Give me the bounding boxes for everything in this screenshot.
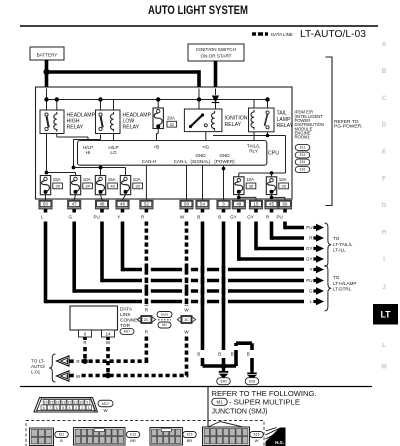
svg-text:ROOM):: ROOM): [295,135,311,140]
pin 47 of IPDM connector, wire color G [68,200,81,209]
svg-text:DATA LINE: DATA LINE [271,32,293,37]
wire high relay coil feed stub [56,100,58,111]
wire tail relay contact to right fuses [267,132,269,136]
wire ignition relay contact feed [198,89,200,110]
svg-text:9: 9 [86,401,88,405]
H.S. hatch symbol [266,428,286,446]
svg-text:PU: PU [94,215,100,220]
svg-text:14: 14 [56,401,60,405]
node bus tap fuse 52 [156,97,160,101]
brace TO LT-AUTO [49,354,55,382]
svg-text:E13: E13 [130,433,136,437]
svg-text:- SUPER MULTIPLE: - SUPER MULTIPLE [229,397,300,406]
off-page connector triangle A [57,356,70,366]
svg-text:W: W [180,215,185,220]
wire battery column inside box [46,89,48,111]
svg-text:54: 54 [200,202,205,207]
svg-text:5: 5 [62,406,64,410]
wire W CAN data line pin 58 down [185,209,189,213]
svg-text:GY: GY [306,246,313,251]
svg-text:JUNCTION (SMJ): JUNCTION (SMJ) [212,406,268,415]
bracket for IPDM refer note [326,57,333,206]
svg-text:PG-POWER.: PG-POWER. [334,124,363,130]
svg-text:B: B [382,68,387,75]
svg-text:B: B [218,215,221,220]
pin 46 of IPDM connector, wire color Y [116,200,129,209]
svg-text:16: 16 [44,401,48,405]
svg-text:M17: M17 [102,402,109,406]
dashed group box for IPDM connectors [26,421,264,446]
svg-text:52: 52 [170,122,175,127]
svg-text:M17: M17 [124,330,131,334]
svg-text:H.S.: H.S. [275,440,284,445]
wire fuse 35 T-split to pins 45 and 56 [271,195,273,198]
svg-text:7: 7 [49,406,51,410]
svg-text:(POWER): (POWER) [214,159,235,164]
wire fuse 36 T-split to pins 49 and 15 [238,195,240,198]
svg-text:E: E [382,149,387,156]
ground symbol E26 [250,370,253,373]
node tail feed junction [266,134,270,138]
svg-text:B: B [60,438,63,443]
svg-text:TO: TO [333,236,340,241]
svg-text:13: 13 [62,401,66,405]
node W data line DLC tap [105,373,111,379]
svg-text:+IG: +IG [202,144,210,149]
node low fuse bus tap [72,166,76,170]
ground symbol E40 [222,366,225,371]
svg-text:CPU: CPU [268,151,279,157]
node battery junction [43,69,49,75]
wire fuse 40 feed stub [100,168,102,176]
wire high relay coil to CPU H/LP HI [56,134,58,138]
pin 48 of IPDM connector, wire color PU [95,200,108,209]
connector ref M17 [120,329,134,335]
connector face E13 [74,428,126,446]
svg-text:15A: 15A [53,177,61,182]
svg-text:4: 4 [69,406,71,410]
svg-text:J: J [382,284,386,291]
wire GND SIGNAL to pin 54 [202,165,204,200]
svg-text:E16: E16 [300,168,306,172]
pin 3 of IPDM connector, wire color B [217,200,230,209]
svg-text:CAN-H: CAN-H [142,159,157,164]
wire tail relay coil to CPU TAIL/L RLY [253,132,255,141]
svg-text:G: G [68,215,72,220]
svg-text:,: , [310,161,311,166]
brace TO LT-TAIL/L LT-ILL [325,223,332,266]
svg-text:C: C [382,95,387,102]
diode D1 ignition relay [212,96,219,103]
node bus tap high relay contact [44,97,48,101]
svg-text:RELAY: RELAY [277,123,294,129]
svg-text:Y: Y [117,215,120,220]
svg-text:TAIL/L: TAIL/L [247,143,261,148]
svg-text:LT-TAIL/L: LT-TAIL/L [333,242,353,247]
wire IPDM internal battery bus [47,99,268,101]
wire high relay contact to fuse bus [46,134,48,173]
svg-text:AUTO LIGHT SYSTEM: AUTO LIGHT SYSTEM [148,4,248,17]
svg-text:W: W [104,408,108,413]
svg-text:HI: HI [86,150,91,155]
wire battery feed drop at x199 [197,70,201,88]
wire GY pin15 to arrow [254,209,258,213]
wire R data line horizontal to LT-AUTO/L-01 [82,359,149,363]
svg-text:49: 49 [236,202,241,207]
node high fuse bus tap [45,171,49,175]
svg-text:IGNITION: IGNITION [225,116,248,122]
svg-text:35: 35 [281,184,286,189]
wire R pin45 to arrow [270,209,274,213]
svg-text:48: 48 [100,202,105,207]
svg-text:L: L [382,342,386,349]
svg-text:,: , [310,154,311,159]
svg-text:45: 45 [269,202,274,207]
svg-text:15A: 15A [108,177,116,182]
svg-text:15: 15 [254,202,259,207]
pin 49 of IPDM connector, wire color GY [232,200,245,209]
svg-text:10A: 10A [83,177,91,182]
wire GY pin49 to arrow [237,209,241,213]
svg-text:RELAY: RELAY [123,125,140,131]
wire fuse 39 to pin 50 [45,195,47,200]
svg-text:F: F [382,176,386,183]
wire ground bridge to E26 [234,350,238,366]
wire PU pin48 to arrow [100,209,104,213]
wire W data line horizontal to LT-AUTO/L-01 [82,374,189,378]
wire ignition switch feed inside box [215,89,217,96]
svg-text:BR: BR [130,438,136,443]
svg-text:RELAY: RELAY [225,122,242,128]
svg-text:52: 52 [144,202,149,207]
svg-text:BR: BR [187,438,193,443]
svg-text:E11: E11 [59,433,65,437]
svg-text:PU: PU [306,225,312,230]
svg-text:E26: E26 [249,379,255,383]
relay ignition relay [184,109,222,132]
wire DLC pin14 W drop [106,337,110,340]
wire fuse 36 feed stub [238,173,240,177]
svg-text:GY: GY [230,215,237,220]
fuse F52 20A [153,108,163,129]
svg-text:6: 6 [56,406,58,410]
svg-text:IGNITION SWITCH: IGNITION SWITCH [196,47,236,52]
wire low relay contact to low fuse bus [100,135,102,140]
data line legend [252,32,268,35]
connector face E11 [30,428,54,446]
relay tail lamp relay [249,108,275,132]
svg-text:39: 39 [55,184,60,189]
battery B1 [30,47,64,60]
svg-text:46: 46 [120,202,125,207]
svg-text:B: B [197,352,200,357]
fuse F34 10A [70,176,80,195]
svg-text:LAMP: LAMP [277,117,292,123]
svg-text:CONNEC-: CONNEC- [120,318,143,324]
svg-text:B: B [197,215,200,220]
svg-text:AUTO/: AUTO/ [31,364,46,369]
footer vertical divider [207,387,209,446]
CPU box of IPDM [78,141,267,166]
node bus tap high relay coil [55,97,59,101]
svg-text:E16: E16 [254,433,260,437]
svg-text:ON OR START: ON OR START [201,54,232,59]
pin 52 of IPDM connector, wire color R [140,200,153,209]
svg-text:+B: +B [154,144,160,149]
wire low relay coil feed elbow [101,99,114,101]
svg-text:LT: LT [380,310,391,320]
svg-text:GY: GY [247,215,254,220]
svg-text:LINK: LINK [120,312,131,318]
svg-text:PU: PU [306,278,312,283]
data link connector box [70,306,118,330]
fuse F33 10A [120,176,130,195]
svg-text:2: 2 [81,406,83,410]
node bus tap battery feed [197,97,201,101]
footer separator line [20,386,372,388]
off-page connector triangle B [57,371,70,381]
svg-text:G: G [382,202,387,209]
svg-text:LT-H/LAMP: LT-H/LAMP [333,281,356,286]
SMJ ref ovals E105 M1 [157,312,172,318]
wire low relay coil to CPU H/LP LO [113,134,115,141]
pin 56 of IPDM connector, wire color PU [278,200,291,209]
relay headlamp high relay [40,110,64,134]
svg-text:TAIL: TAIL [277,111,288,117]
pin 50 of IPDM connector, wire color L [39,200,52,209]
svg-text:B: B [231,352,234,357]
wire low fuse bus [74,167,126,169]
pin 45 of IPDM connector, wire color R [265,200,278,209]
svg-text:GY: GY [306,257,313,262]
svg-text:RELAY: RELAY [67,125,84,131]
svg-text:E11: E11 [300,146,306,150]
svg-text:40: 40 [110,184,115,189]
svg-text:10A: 10A [246,177,254,182]
brace TO LT-H/LAMP LT-DTRL [325,266,332,311]
wire DLC pin6 R drop [83,337,87,340]
wire tail relay contact feed stub [267,100,269,111]
DLC pin 6 [79,330,92,337]
node GND junction [222,167,226,171]
svg-text:10A: 10A [133,177,141,182]
svg-text:B: B [247,352,250,357]
pin 58 of IPDM connector, wire color W [180,200,193,209]
svg-text:LO: LO [110,150,117,155]
svg-text:RLY: RLY [249,149,258,154]
svg-text:DATA: DATA [120,307,133,313]
svg-text:D: D [382,122,387,129]
svg-text:15: 15 [50,401,54,405]
svg-text:W: W [255,438,259,443]
svg-text:Y: Y [309,267,312,272]
node R data line DLC tap [82,358,88,364]
fuse F36 10A [234,177,244,195]
svg-text:12: 12 [68,401,72,405]
svg-text:GND: GND [219,153,230,158]
svg-text:CAN-L: CAN-L [174,159,188,164]
svg-text:36: 36 [249,184,254,189]
wire fuse 35 feed stub [271,173,273,177]
svg-text:47: 47 [72,202,77,207]
connector face E15 [150,428,183,446]
svg-text:M: M [381,364,386,371]
svg-text:B: B [218,352,221,357]
fuse F35 10A [266,177,276,195]
svg-text:1C: 1C [184,317,189,322]
svg-text:E40: E40 [221,379,227,383]
svg-text:14: 14 [106,332,111,337]
svg-text:3: 3 [75,406,77,410]
svg-text:TO LT-: TO LT- [31,359,45,364]
wire fuse 34 to pin 47 [74,195,75,200]
svg-text:E13: E13 [300,153,306,157]
svg-text:M1: M1 [216,399,223,404]
svg-text:LT-DTRL: LT-DTRL [333,287,352,292]
wire fuse 33 to pin 46 [123,195,126,200]
wire high fuse bus [47,172,76,174]
node ground junction [221,363,227,369]
IPDM E/R box outline [36,87,293,199]
svg-text:TO: TO [333,275,340,280]
wire ignition switch feed [214,61,218,89]
ignition switch source box [188,44,244,61]
svg-text:58: 58 [184,202,189,207]
wire CAN-L to pin 58 [186,165,188,200]
wire low relay contact feed stub [100,100,102,111]
svg-text:BATTERY: BATTERY [37,52,58,57]
svg-text:LT-ILL: LT-ILL [333,248,346,253]
wire B pin 54 ground drop [201,209,205,213]
pin 54 of IPDM connector, wire color B [196,200,209,209]
wire B pin 3 ground drop [222,209,226,213]
wire PU pin56 to arrow [283,209,287,213]
wire crossover gaps [142,267,151,272]
wire Y pin46 to arrow [121,209,125,213]
svg-text:20A: 20A [167,116,175,121]
wire fuse 52 feed stub [157,100,159,109]
svg-text:56: 56 [283,202,288,207]
DLC pin 14 [102,330,115,337]
svg-text:33: 33 [135,184,140,189]
node bus tap low relay [98,97,102,101]
svg-text:A: A [382,41,387,48]
svg-text:M1: M1 [162,323,167,327]
svg-text:PU: PU [277,215,283,220]
svg-text:(SIGNAL): (SIGNAL) [191,159,211,164]
connector face E16 [203,427,250,446]
wire G pin47 to arrow [72,209,76,213]
node bus tap tail relay [265,97,269,101]
relay headlamp low relay [96,110,121,134]
wire L pin50 to LT-H/LAMP arrow [44,209,48,213]
header rule [20,25,378,27]
svg-text:,: , [310,146,311,151]
svg-text:TOR: TOR [120,323,131,329]
svg-text:50: 50 [43,202,48,207]
svg-text:H: H [382,229,387,236]
svg-text:8: 8 [43,406,45,410]
svg-text:E15: E15 [187,433,193,437]
svg-text:34: 34 [85,184,90,189]
wire ground bus bar [203,364,237,368]
wire tail relay coil feed elbow [253,100,255,111]
wire GND POWER to pin 3 [223,165,225,200]
wire fuse 40 to pin 48 [101,195,103,200]
connector refs E11 E13 E15 E16 [295,145,310,151]
svg-text:2C: 2C [144,317,149,322]
svg-text:1: 1 [88,406,90,410]
fuse F39 15A [40,176,50,195]
svg-text:E105: E105 [161,313,168,317]
wire battery bus to ignition relay column [47,70,200,74]
svg-text:LT-AUTO/L-03: LT-AUTO/L-03 [300,29,366,40]
svg-text:11: 11 [74,401,78,405]
svg-text:10A: 10A [279,177,287,182]
fuse F40 15A [95,176,105,195]
pin 15 of IPDM connector, wire color GY [249,200,262,209]
svg-text:E15: E15 [300,160,306,164]
wire battery feed vertical [45,60,49,89]
svg-text:GND: GND [195,153,206,158]
margin LT tab [373,304,398,325]
svg-text:G: G [309,289,313,294]
wire ignition relay output to CPU +IG [205,132,207,141]
svg-text:10: 10 [80,401,84,405]
wire fuse 52 to CPU +B [157,129,159,134]
wire CAN-H to pin 52 [145,165,147,200]
connector face M17 data link connector [34,398,98,413]
svg-text:I: I [383,256,385,263]
wire R CAN data line pin 52 down [145,209,149,213]
svg-text:L-01: L-01 [31,370,41,375]
